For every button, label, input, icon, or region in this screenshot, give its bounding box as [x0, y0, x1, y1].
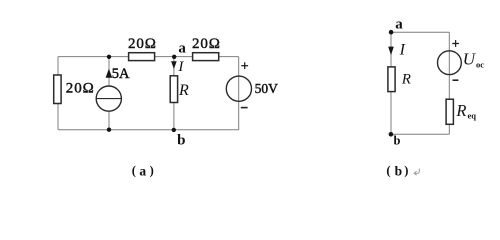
svg-text:50V: 50V [255, 81, 279, 96]
svg-text:b: b [394, 133, 401, 147]
svg-text:R: R [178, 82, 189, 99]
svg-text:(: ( [132, 164, 136, 178]
svg-text:eq: eq [468, 110, 477, 120]
svg-text:R: R [455, 101, 466, 120]
svg-text:(: ( [386, 164, 390, 178]
svg-text:a: a [178, 41, 186, 57]
svg-text:5A: 5A [112, 66, 130, 82]
svg-text:a: a [139, 164, 146, 179]
svg-text:): ) [404, 164, 408, 178]
svg-text:20Ω: 20Ω [66, 80, 95, 96]
svg-text:): ) [150, 164, 154, 178]
svg-text:b: b [395, 164, 403, 179]
svg-text:20Ω: 20Ω [192, 36, 221, 52]
svg-text:U: U [463, 50, 477, 69]
svg-text:b: b [177, 133, 185, 149]
svg-text:I: I [399, 42, 406, 59]
svg-text:R: R [401, 71, 411, 87]
svg-text:a: a [395, 16, 403, 32]
svg-text:20Ω: 20Ω [128, 36, 157, 52]
svg-text:oc: oc [476, 59, 484, 69]
svg-text:I: I [177, 59, 184, 75]
